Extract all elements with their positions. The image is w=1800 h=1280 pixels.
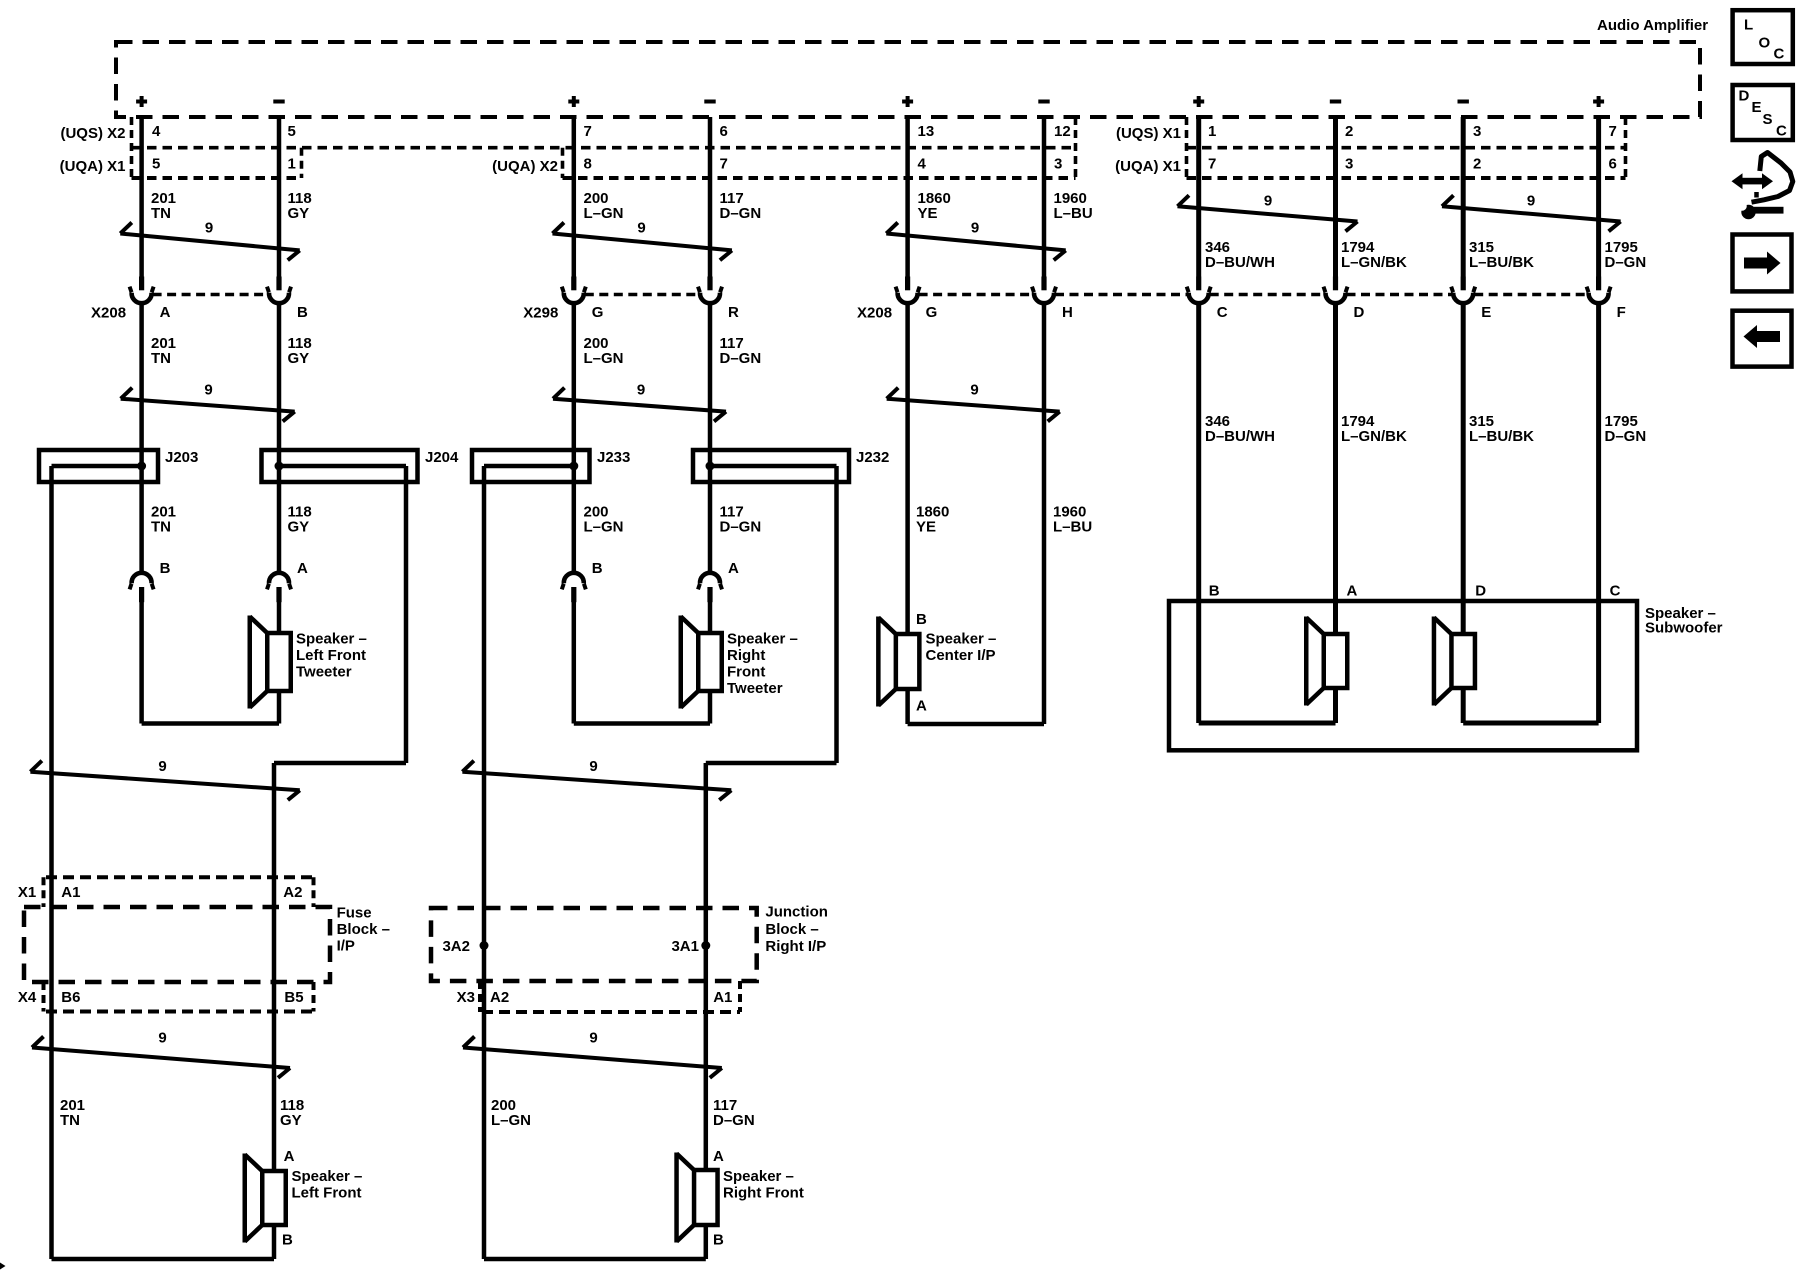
svg-text:L–GN: L–GN — [584, 519, 624, 536]
svg-text:(UQA) X1: (UQA) X1 — [60, 158, 126, 175]
svg-text:F: F — [1617, 304, 1626, 321]
svg-text:A: A — [916, 698, 927, 715]
svg-text:GY: GY — [288, 519, 310, 536]
svg-text:A: A — [284, 1148, 295, 1165]
svg-text:7: 7 — [720, 155, 728, 172]
svg-text:D: D — [1475, 583, 1486, 600]
svg-text:B6: B6 — [61, 989, 80, 1006]
svg-text:(UQS) X2: (UQS) X2 — [60, 125, 125, 142]
svg-text:3: 3 — [1473, 123, 1481, 140]
svg-text:Speaker –: Speaker – — [292, 1168, 363, 1185]
svg-text:A1: A1 — [61, 884, 80, 901]
svg-text:B5: B5 — [284, 989, 303, 1006]
svg-text:O: O — [1759, 35, 1771, 52]
svg-text:Right: Right — [727, 647, 765, 664]
svg-text:A: A — [160, 304, 171, 321]
svg-text:9: 9 — [971, 220, 979, 237]
svg-text:Front: Front — [727, 664, 765, 681]
svg-text:B: B — [297, 304, 308, 321]
svg-text:E: E — [1752, 99, 1762, 116]
svg-text:L–BU: L–BU — [1054, 205, 1093, 222]
svg-text:Speaker –: Speaker – — [296, 631, 367, 648]
svg-text:B: B — [282, 1232, 293, 1249]
svg-text:1: 1 — [288, 155, 296, 172]
svg-text:TN: TN — [151, 519, 171, 536]
svg-text:6: 6 — [1609, 155, 1617, 172]
svg-text:L–GN: L–GN — [584, 350, 624, 367]
svg-text:A2: A2 — [283, 884, 302, 901]
svg-text:9: 9 — [205, 220, 213, 237]
svg-text:Fuse: Fuse — [337, 905, 372, 922]
svg-text:3A1: 3A1 — [671, 938, 699, 955]
svg-text:H: H — [1062, 304, 1073, 321]
svg-text:9: 9 — [158, 758, 166, 775]
svg-text:L–GN: L–GN — [491, 1112, 531, 1129]
svg-text:Left Front: Left Front — [296, 647, 366, 664]
svg-text:R: R — [728, 304, 739, 321]
svg-text:3A2: 3A2 — [442, 938, 470, 955]
svg-text:Right I/P: Right I/P — [765, 938, 826, 955]
svg-text:I/P: I/P — [337, 938, 355, 955]
svg-text:X3: X3 — [457, 989, 475, 1006]
svg-text:9: 9 — [1527, 193, 1535, 210]
svg-text:9: 9 — [589, 758, 597, 775]
svg-text:Tweeter: Tweeter — [727, 680, 783, 697]
svg-text:9: 9 — [204, 382, 212, 399]
svg-text:9: 9 — [1264, 193, 1272, 210]
svg-text:E: E — [1481, 304, 1491, 321]
svg-text:J233: J233 — [597, 449, 630, 466]
svg-text:B: B — [1209, 583, 1220, 600]
svg-text:Speaker –: Speaker – — [723, 1168, 794, 1185]
svg-text:J203: J203 — [165, 449, 198, 466]
svg-text:B: B — [592, 560, 603, 577]
svg-text:A: A — [1347, 583, 1358, 600]
svg-text:D–BU/WH: D–BU/WH — [1205, 428, 1275, 445]
svg-text:X4: X4 — [18, 989, 37, 1006]
svg-text:C: C — [1776, 123, 1787, 140]
svg-text:6: 6 — [720, 123, 728, 140]
svg-text:2: 2 — [1473, 155, 1481, 172]
svg-text:L–GN/BK: L–GN/BK — [1341, 254, 1407, 271]
svg-text:A2: A2 — [490, 989, 509, 1006]
svg-text:X1: X1 — [18, 884, 36, 901]
svg-text:X298: X298 — [523, 305, 558, 322]
svg-text:5: 5 — [152, 155, 160, 172]
svg-text:L–GN/BK: L–GN/BK — [1341, 428, 1407, 445]
svg-text:L–GN: L–GN — [584, 205, 624, 222]
svg-text:B: B — [160, 560, 171, 577]
svg-text:2: 2 — [1345, 123, 1353, 140]
svg-text:Speaker –: Speaker – — [926, 631, 997, 648]
svg-text:J204: J204 — [425, 449, 459, 466]
svg-text:L–BU/BK: L–BU/BK — [1469, 254, 1534, 271]
svg-text:L–BU: L–BU — [1053, 519, 1092, 536]
svg-text:S: S — [1763, 111, 1773, 128]
svg-text:1: 1 — [1208, 123, 1216, 140]
svg-text:4: 4 — [918, 155, 927, 172]
svg-text:9: 9 — [158, 1030, 166, 1047]
svg-text:D–GN: D–GN — [720, 205, 762, 222]
svg-text:9: 9 — [637, 220, 645, 237]
svg-text:L–BU/BK: L–BU/BK — [1469, 428, 1534, 445]
svg-text:9: 9 — [637, 382, 645, 399]
svg-text:D–GN: D–GN — [720, 519, 762, 536]
svg-text:J232: J232 — [856, 449, 889, 466]
svg-text:Left Front: Left Front — [292, 1185, 362, 1202]
svg-text:Speaker –: Speaker – — [727, 631, 798, 648]
svg-text:X208: X208 — [91, 305, 126, 322]
svg-text:7: 7 — [584, 123, 592, 140]
svg-text:C: C — [1610, 583, 1621, 600]
svg-text:A1: A1 — [713, 989, 732, 1006]
svg-text:(UQA) X1: (UQA) X1 — [1115, 158, 1181, 175]
svg-text:L: L — [1744, 17, 1753, 34]
svg-text:YE: YE — [916, 519, 936, 536]
svg-text:C: C — [1217, 304, 1228, 321]
svg-text:7: 7 — [1609, 123, 1617, 140]
svg-text:12: 12 — [1054, 123, 1071, 140]
svg-text:D: D — [1739, 88, 1750, 105]
svg-text:9: 9 — [589, 1030, 597, 1047]
svg-text:Block –: Block – — [337, 921, 390, 938]
svg-text:GY: GY — [288, 205, 310, 222]
svg-text:7: 7 — [1208, 155, 1216, 172]
svg-text:Audio Amplifier: Audio Amplifier — [1597, 17, 1708, 34]
svg-text:4: 4 — [152, 123, 161, 140]
svg-text:YE: YE — [918, 205, 938, 222]
svg-text:GY: GY — [280, 1112, 302, 1129]
svg-text:B: B — [916, 611, 927, 628]
svg-text:X208: X208 — [857, 305, 892, 322]
svg-text:D–GN: D–GN — [1605, 254, 1647, 271]
svg-text:8: 8 — [584, 155, 592, 172]
svg-text:G: G — [592, 304, 604, 321]
svg-text:Subwoofer: Subwoofer — [1645, 620, 1723, 637]
svg-text:D–GN: D–GN — [1605, 428, 1647, 445]
svg-text:Block –: Block – — [765, 921, 818, 938]
svg-text:3: 3 — [1345, 155, 1353, 172]
svg-text:A: A — [728, 560, 739, 577]
svg-text:(UQA) X2: (UQA) X2 — [492, 158, 558, 175]
svg-text:Tweeter: Tweeter — [296, 664, 352, 681]
svg-text:D–GN: D–GN — [713, 1112, 755, 1129]
svg-text:Center I/P: Center I/P — [926, 647, 996, 664]
svg-text:TN: TN — [151, 205, 171, 222]
svg-text:D–BU/WH: D–BU/WH — [1205, 254, 1275, 271]
svg-text:5: 5 — [288, 123, 296, 140]
svg-text:(UQS) X1: (UQS) X1 — [1116, 125, 1181, 142]
svg-text:B: B — [713, 1232, 724, 1249]
svg-text:TN: TN — [60, 1112, 80, 1129]
svg-text:C: C — [1774, 46, 1785, 63]
svg-text:D–GN: D–GN — [720, 350, 762, 367]
svg-text:3: 3 — [1054, 155, 1062, 172]
svg-text:Junction: Junction — [765, 904, 828, 921]
svg-text:9: 9 — [970, 382, 978, 399]
svg-text:13: 13 — [918, 123, 935, 140]
svg-text:TN: TN — [151, 350, 171, 367]
svg-text:D: D — [1354, 304, 1365, 321]
svg-text:Right Front: Right Front — [723, 1185, 804, 1202]
svg-text:G: G — [926, 304, 938, 321]
svg-text:A: A — [713, 1148, 724, 1165]
svg-text:A: A — [297, 560, 308, 577]
svg-text:GY: GY — [288, 350, 310, 367]
